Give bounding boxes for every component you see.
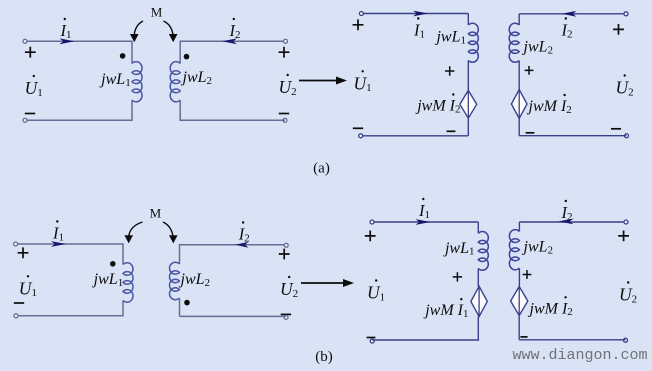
terminal 4 (b-right bottom-right port) xyxy=(624,338,628,342)
wire top branch-2 (a-right) xyxy=(519,13,626,15)
inductor jwL2 (a-right) xyxy=(509,23,519,62)
wire top branch-1 (a-right) xyxy=(363,13,468,15)
plus U2 (a-left) xyxy=(279,47,290,58)
arrow I1 (b-right) xyxy=(416,219,431,225)
arrow I2 current direction (a-left) xyxy=(222,38,237,44)
terminal 2 (b-right bottom-left port) xyxy=(370,339,374,343)
wire top branch-1 (b-right) xyxy=(374,221,478,223)
wire top-left (b) primary xyxy=(18,243,123,245)
wire secondary inductor bottom lead (a) xyxy=(179,100,181,121)
wire branch-1 middle (b-right) xyxy=(477,269,479,288)
svg-text:jwM I2: jwM I2 xyxy=(415,98,460,116)
overdot 8 (derivative dot of phasor letter) xyxy=(565,17,567,19)
overdot 20 (derivative dot of phasor letter) xyxy=(564,296,566,298)
controlled source jwM I1 (b-right branch-1) xyxy=(471,286,487,316)
minus U2 (b-left) xyxy=(281,313,291,315)
arrow I1 current direction (a-left) xyxy=(60,38,75,44)
terminal 2 (a-right bottom-left port) xyxy=(359,134,363,138)
overdot 7 (derivative dot of phasor letter) xyxy=(452,93,454,95)
plus controlled source 1 (b-right) xyxy=(453,272,462,281)
wire branch-1 upper lead (b-right) xyxy=(477,222,479,233)
wire branch-1 middle (a-right) xyxy=(467,61,469,91)
svg-text:jwM I1: jwM I1 xyxy=(423,302,468,320)
wire top-right (a) secondary xyxy=(180,40,285,42)
minus U1 (a-left) xyxy=(25,113,35,115)
plus U1 (a-left) xyxy=(25,47,36,58)
overdot 16 (derivative dot of phasor letter) xyxy=(422,198,424,200)
terminal 4 (a-right bottom-right port) xyxy=(625,134,629,138)
minus controlled source 1 (a-right) xyxy=(447,130,456,132)
svg-text:jwM I2: jwM I2 xyxy=(528,300,573,318)
wire secondary inductor bottom lead (b) xyxy=(179,298,181,316)
terminal 2 (b-left bottom-left port) xyxy=(14,314,18,318)
plus U1 (b-left) xyxy=(18,247,29,258)
svg-text:M: M xyxy=(151,5,163,20)
terminal 1 (a-left top-left port) xyxy=(23,39,27,43)
equivalence arrow (a) xyxy=(299,80,338,82)
arrow I2 (a-right) xyxy=(562,11,577,17)
wire branch-2 lower lead (b-right) xyxy=(518,316,520,340)
arrow I1 (a-right) xyxy=(413,11,428,17)
wire primary inductor bottom lead (b) xyxy=(122,300,124,316)
wire primary inductor top lead (b) xyxy=(122,243,124,264)
controlled source jwM I2 (a-right branch-2) xyxy=(511,90,527,119)
coupling dot primary (b) xyxy=(110,261,116,267)
mutual arrow left (b) xyxy=(129,222,143,237)
minus U2 (a-right) xyxy=(611,128,621,130)
wire branch-1 upper lead (a-right) xyxy=(467,14,469,26)
overdot 19 (derivative dot of phasor letter) xyxy=(627,281,629,283)
equivalence arrow (b) xyxy=(301,282,345,284)
wire bottom-left (a) primary xyxy=(27,119,132,121)
plus controlled source 2 (a-right) xyxy=(525,66,534,75)
wire top-left (a) primary xyxy=(27,40,132,42)
minus controlled source 2 (a-right) xyxy=(526,132,535,134)
plus U2 (a-right) xyxy=(613,24,624,35)
minus U1 (b-right) xyxy=(367,337,376,339)
wire branch-2 lower lead (a-right) xyxy=(518,118,520,135)
terminal 3 (a-right top-right port) xyxy=(624,12,628,16)
mutual arrow left (a) xyxy=(134,21,143,35)
controlled source jwM I2 (b-right branch-2) xyxy=(511,287,528,316)
arrow I2 (b-right) xyxy=(559,219,574,225)
wire bottom branch-2 (b-right) xyxy=(519,339,625,341)
mutual arrow right (b) xyxy=(163,222,173,237)
wire branch-2 upper lead (a-right) xyxy=(518,14,520,25)
svg-text:M: M xyxy=(150,206,162,221)
mutual arrow right (a) xyxy=(164,21,174,35)
inductor jwL1 (b-right) xyxy=(478,232,488,271)
wire bottom branch-1 (a-right) xyxy=(362,135,468,137)
terminal 3 (a-left top-right port) xyxy=(284,39,288,43)
overdot 18 (derivative dot of phasor letter) xyxy=(565,200,567,202)
coupling dot secondary (b) xyxy=(184,300,190,306)
overdot 14 (derivative dot of phasor letter) xyxy=(288,276,290,278)
coupling dot secondary (a) xyxy=(184,54,190,60)
wire top-right (b) secondary xyxy=(180,244,287,246)
wire branch-1 lower lead (a-right) xyxy=(467,118,469,136)
inductor jwL1 (a-right) xyxy=(468,23,478,62)
wire branch-2 upper lead (b-right) xyxy=(518,222,520,232)
terminal 3 (b-right top-right port) xyxy=(624,220,628,224)
svg-text:(b): (b) xyxy=(315,349,333,365)
plus U2 (b-left) xyxy=(279,249,290,260)
overdot 12 (derivative dot of phasor letter) xyxy=(27,275,29,277)
svg-text:www.diangon.com: www.diangon.com xyxy=(513,347,648,364)
plus U2 (b-right) xyxy=(618,231,629,242)
wire top branch-2 (b-right) xyxy=(519,221,626,223)
inductor jwL1 (b) xyxy=(123,263,133,302)
wire bottom branch-2 (a-right) xyxy=(519,135,626,137)
inductor jwL2 (b-right) xyxy=(509,230,519,270)
overdot 9 (derivative dot of phasor letter) xyxy=(624,74,626,76)
wire bottom branch-1 (b-right) xyxy=(372,339,479,341)
terminal 2 (a-left bottom-left port) xyxy=(23,118,27,122)
minus U2 (a-left) xyxy=(279,113,289,115)
terminal 1 (b-right top-left port) xyxy=(370,220,374,224)
terminal 1 (a-right top-left port) xyxy=(359,12,363,16)
wire branch-1 lower lead (b-right) xyxy=(477,317,479,341)
wire primary inductor bottom lead (a) xyxy=(131,100,133,121)
plus controlled source 1 (a-right) xyxy=(445,66,454,75)
inductor jwL1 (a) xyxy=(132,62,142,102)
overdot 13 (derivative dot of phasor letter) xyxy=(242,221,244,223)
inductor jwL2 (b) xyxy=(169,262,179,299)
minus controlled source 2 (b-right) xyxy=(520,336,527,338)
terminal 4 (a-left bottom-right port) xyxy=(283,118,287,122)
arrow I2 current direction (b-left) xyxy=(235,242,249,248)
wire branch-2 middle (a-right) xyxy=(518,61,520,91)
terminal 4 (b-left bottom-right port) xyxy=(284,315,288,319)
svg-text:(a): (a) xyxy=(313,161,330,177)
plus U1 (b-right) xyxy=(365,231,376,242)
overdot 2 (derivative dot of phasor letter) xyxy=(33,75,35,77)
overdot 10 (derivative dot of phasor letter) xyxy=(563,94,565,96)
overdot 4 (derivative dot of phasor letter) xyxy=(287,74,289,76)
overdot 15 (derivative dot of phasor letter) xyxy=(375,279,377,281)
wire secondary inductor top lead (b) xyxy=(179,244,181,264)
overdot 6 (derivative dot of phasor letter) xyxy=(417,17,419,19)
plus U1 (a-right) xyxy=(353,19,364,30)
controlled source jwM I2 (a-right branch-1) xyxy=(460,90,477,118)
wire bottom-right (b) secondary xyxy=(180,315,287,317)
svg-text:jwM I2: jwM I2 xyxy=(527,98,572,116)
minus U1 (a-right) xyxy=(353,127,363,129)
overdot 11 (derivative dot of phasor letter) xyxy=(56,220,58,222)
wire bottom-right (a) secondary xyxy=(180,119,285,121)
overdot 1 (derivative dot of phasor letter) xyxy=(64,18,66,20)
plus controlled source 2 (b-right) xyxy=(523,270,532,279)
overdot 5 (derivative dot of phasor letter) xyxy=(362,70,364,72)
overdot 17 (derivative dot of phasor letter) xyxy=(460,298,462,300)
overdot 3 (derivative dot of phasor letter) xyxy=(233,18,235,20)
wire secondary inductor top lead (a) xyxy=(179,41,181,64)
arrow I1 current direction (b-left) xyxy=(51,241,66,247)
coupling dot primary (a) xyxy=(120,53,126,59)
terminal 3 (b-left top-right port) xyxy=(284,243,288,247)
wire primary inductor top lead (a) xyxy=(131,41,133,64)
terminal 1 (b-left top-left port) xyxy=(14,242,18,246)
wire bottom-left (b) primary xyxy=(18,315,123,317)
minus U1 (b-left) xyxy=(14,302,24,304)
inductor jwL2 (a) xyxy=(170,62,180,102)
wire branch-2 middle (b-right) xyxy=(518,268,520,287)
